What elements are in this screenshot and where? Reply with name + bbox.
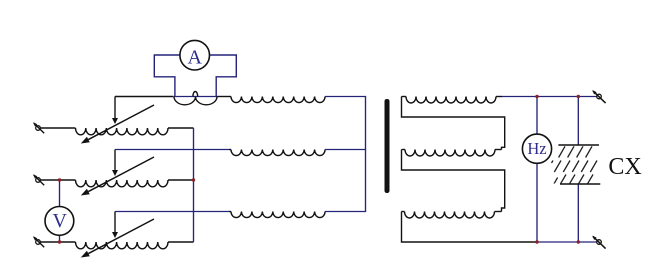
svg-text:CX: CX	[608, 154, 641, 180]
svg-text:A: A	[187, 46, 202, 68]
svg-text:V: V	[52, 210, 67, 232]
svg-text:Hz: Hz	[527, 139, 546, 158]
